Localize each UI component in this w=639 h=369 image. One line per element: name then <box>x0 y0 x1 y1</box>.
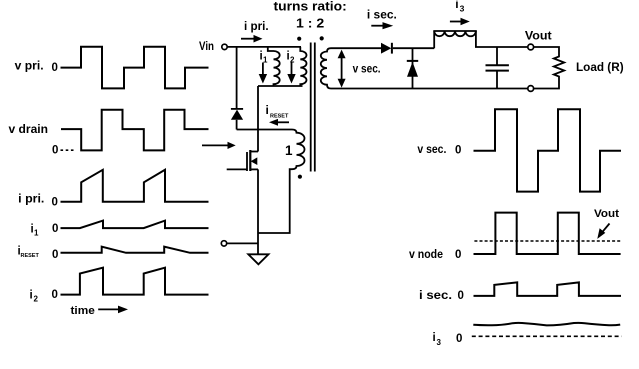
svg-text:turns ratio:: turns ratio: <box>274 0 347 13</box>
svg-text:Vout: Vout <box>525 29 552 43</box>
svg-text:i sec.: i sec. <box>367 8 397 22</box>
svg-text:i: i <box>433 332 436 344</box>
svg-text:i: i <box>266 103 269 117</box>
svg-text:0: 0 <box>52 223 58 235</box>
svg-text:0: 0 <box>52 196 58 208</box>
svg-text:v node: v node <box>409 249 443 261</box>
svg-text:RESET: RESET <box>21 253 40 259</box>
svg-text:3: 3 <box>437 338 442 347</box>
svg-text:0: 0 <box>458 290 464 302</box>
svg-text:v drain: v drain <box>9 122 49 136</box>
svg-text:0: 0 <box>52 249 58 261</box>
svg-text:i pri.: i pri. <box>18 191 44 205</box>
svg-text:1: 1 <box>285 143 293 158</box>
svg-text:0: 0 <box>52 289 58 301</box>
svg-text:i pri.: i pri. <box>244 19 269 33</box>
svg-text:3: 3 <box>460 4 465 14</box>
svg-text:1 : 2: 1 : 2 <box>296 15 324 30</box>
svg-text:time: time <box>71 305 95 317</box>
svg-text:Vin: Vin <box>199 41 214 53</box>
svg-text:2: 2 <box>34 294 39 303</box>
svg-text:v sec.: v sec. <box>353 64 381 76</box>
svg-text:0: 0 <box>455 145 461 157</box>
svg-text:0: 0 <box>52 144 58 156</box>
svg-text:Load (R): Load (R) <box>576 60 624 74</box>
svg-text:v pri.: v pri. <box>15 59 44 73</box>
svg-text:v sec.: v sec. <box>417 144 446 156</box>
svg-text:0: 0 <box>456 333 462 345</box>
svg-text:RESET: RESET <box>270 114 289 120</box>
svg-text:0: 0 <box>52 62 58 74</box>
svg-text:i: i <box>30 289 33 301</box>
svg-text:i sec.: i sec. <box>419 290 452 302</box>
svg-text:Vout: Vout <box>594 208 619 220</box>
svg-text:i: i <box>455 0 458 11</box>
svg-text:1: 1 <box>34 229 39 238</box>
svg-text:0: 0 <box>455 249 461 261</box>
